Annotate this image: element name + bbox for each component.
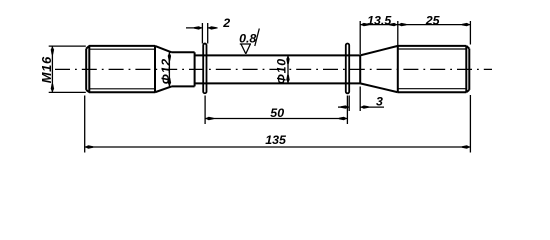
roughness symbol check mark — [240, 29, 259, 54]
dimension phi12 line — [168, 52, 170, 86]
svg-text:25: 25 — [425, 13, 441, 27]
2 dim arrows — [194, 26, 203, 29]
M16 arrows — [51, 46, 54, 55]
svg-text:135: 135 — [265, 133, 287, 147]
svg-text:3: 3 — [376, 95, 383, 109]
dimension 25 extension lines — [398, 21, 471, 46]
left thread chamfer line — [88, 46, 90, 92]
svg-text:Φ10: Φ10 — [274, 58, 288, 84]
svg-text:13.5: 13.5 — [367, 13, 392, 27]
dimension 50 extension lines — [205, 96, 347, 125]
right gauge collar ridge — [346, 43, 349, 93]
135 dim arrows — [85, 145, 94, 148]
dimension M16 line — [51, 46, 53, 92]
svg-text:2: 2 — [222, 16, 230, 30]
svg-text:0.8: 0.8 — [239, 31, 256, 45]
right thread head outline — [398, 46, 470, 92]
dimension 135 line — [85, 146, 471, 148]
gauge rod phi10 — [195, 55, 361, 83]
dimension 13.5 extension line — [359, 21, 361, 54]
centerline — [55, 68, 492, 70]
dimension 25 line — [398, 24, 471, 26]
phi12 arrows — [168, 52, 171, 61]
3 dim arrows — [341, 105, 350, 108]
right thread chamfer line — [465, 46, 467, 92]
arrowheads — [51, 23, 471, 149]
phi12 shoulder section — [172, 52, 195, 86]
dimension 50 line — [205, 118, 347, 120]
left thread head outline — [86, 46, 155, 92]
dimension 13.5 line — [360, 24, 398, 26]
dimension 2 line — [186, 27, 218, 29]
svg-text:M16: M16 — [39, 56, 54, 83]
dimension 2 extension lines — [202, 23, 207, 44]
25 dim arrows — [398, 23, 407, 26]
svg-text:50: 50 — [270, 106, 284, 120]
50 dim arrows — [205, 117, 214, 120]
dimension 3 line — [338, 106, 384, 108]
svg-text:Φ12: Φ12 — [159, 58, 173, 84]
right taper cone — [360, 46, 398, 92]
13.5 dim arrows — [360, 23, 369, 26]
right thread minor diameter lines — [398, 49, 467, 89]
dimension 135 extension lines — [85, 95, 471, 153]
dimension 3 extension lines — [349, 87, 360, 112]
dimension phi10 line — [287, 55, 289, 83]
phi10 arrows — [286, 55, 289, 64]
dimension M16 extension lines — [49, 46, 86, 92]
left gauge collar ridge — [203, 44, 206, 94]
left thread minor diameter lines — [89, 49, 155, 89]
right taper start face — [359, 55, 361, 83]
left taper cone — [155, 46, 172, 92]
